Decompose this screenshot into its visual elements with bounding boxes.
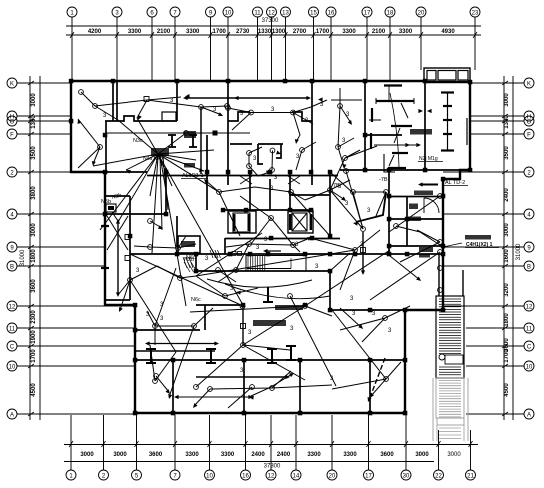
- corridor wire run: [247, 242, 252, 247]
- wire upleft arrow: [78, 119, 82, 124]
- mid-right riser: [361, 227, 366, 232]
- outer wall top right segment: [425, 81, 470, 83]
- door hinge boxes: [232, 252, 236, 256]
- outer wall right mid: [443, 170, 471, 311]
- svg-text:10: 10: [526, 365, 533, 371]
- svg-text:3: 3: [253, 156, 257, 162]
- svg-text:12: 12: [268, 474, 275, 480]
- svg-text:12: 12: [9, 305, 16, 311]
- svg-text:1900: 1900: [31, 330, 37, 344]
- wall H y238 corridor top: [225, 238, 312, 240]
- bottom axis tick slashes: [69, 441, 73, 447]
- right stair corridor walls: [438, 254, 440, 296]
- svg-text:B: B: [527, 265, 531, 271]
- distribution board label: [465, 235, 491, 240]
- svg-text:17: 17: [365, 474, 372, 480]
- svg-text:1300: 1300: [31, 115, 37, 129]
- svg-text:G: G: [527, 120, 532, 126]
- svg-text:K: K: [10, 82, 14, 88]
- svg-text:3200: 3200: [504, 283, 510, 297]
- wire drop TL: [137, 100, 147, 118]
- hub blob right: [184, 163, 195, 168]
- wall segment y351: [135, 350, 215, 352]
- svg-text:3: 3: [213, 107, 217, 113]
- right stair grey section: [433, 378, 468, 441]
- wall V x290: [289, 172, 291, 210]
- svg-text:A: A: [527, 413, 531, 419]
- wire ceiling run: [228, 107, 311, 113]
- wall H y144 center rooms: [230, 143, 252, 145]
- top axis dimension band: [66, 25, 481, 27]
- svg-text:3: 3: [160, 316, 164, 322]
- elevator shaft left: [228, 211, 256, 233]
- svg-text:3: 3: [345, 201, 349, 207]
- long curved wire arc1: [207, 279, 312, 287]
- svg-text:3: 3: [136, 268, 140, 274]
- svg-text:10: 10: [225, 11, 232, 17]
- balcony parapet row top-right: [424, 68, 470, 82]
- corridor double-arrow wire top: [185, 97, 309, 99]
- svg-text:1700: 1700: [316, 29, 330, 35]
- svg-text:2100: 2100: [372, 29, 386, 35]
- right axis dimension band: [503, 76, 505, 420]
- wall H y219 right: [389, 218, 443, 220]
- low bars: [392, 152, 408, 154]
- svg-text:22: 22: [435, 474, 442, 480]
- svg-text:2400: 2400: [504, 188, 510, 202]
- bottom room partition x244: [243, 362, 245, 413]
- svg-text:B: B: [10, 265, 14, 271]
- outer wall left step2: [104, 304, 136, 306]
- wall H y254 corridor bottom: [130, 253, 443, 255]
- small room lamps: [247, 151, 252, 156]
- svg-text:3600: 3600: [31, 279, 37, 293]
- svg-text:1300: 1300: [504, 115, 510, 129]
- right stair rungs upper: [439, 298, 461, 300]
- svg-text:6: 6: [150, 11, 154, 17]
- bottom long wires: [208, 387, 213, 392]
- outer wall left step1: [70, 171, 106, 173]
- svg-text:3300: 3300: [186, 29, 200, 35]
- left axis tick slashes: [28, 81, 34, 85]
- wall H y360 bottom rooms: [135, 359, 405, 361]
- bottom axis bubbles: [66, 470, 76, 480]
- wall H y271 stair bottom: [196, 270, 330, 272]
- bottom center room blob: [253, 320, 286, 326]
- svg-text:C4H1(X2) 1: C4H1(X2) 1: [466, 242, 493, 248]
- bottom room partition x300: [299, 362, 301, 413]
- left axis dimension band: [29, 76, 31, 420]
- svg-text:10: 10: [206, 474, 213, 480]
- wall V x130 mid: [129, 196, 131, 300]
- wall V x425 upper: [424, 82, 426, 170]
- long wire from wall: [370, 252, 440, 300]
- wall V x281 center: [276, 144, 281, 158]
- svg-text:2100: 2100: [157, 29, 171, 35]
- wall H y210 shafts top: [223, 209, 311, 211]
- svg-text:3: 3: [205, 256, 209, 262]
- wire chain continues right: [199, 105, 204, 110]
- svg-text:17: 17: [364, 11, 371, 17]
- wire to switch TL: [95, 106, 118, 120]
- wall V x228 top: [227, 81, 229, 185]
- wall H y214 left rooms: [105, 213, 166, 215]
- svg-text:4: 4: [10, 213, 14, 219]
- svg-text:3500: 3500: [504, 146, 510, 160]
- left axis bubbles: [7, 78, 17, 88]
- wall H y196 left niche: [105, 195, 130, 197]
- equipment blob y132: [184, 131, 196, 138]
- wall H y310 right lower: [330, 309, 405, 311]
- wall V x205 lower stub: [204, 305, 206, 330]
- svg-text:-7B: -7B: [379, 177, 388, 183]
- butterfly door mark: [418, 109, 423, 113]
- svg-text:9: 9: [10, 246, 14, 252]
- svg-text:3: 3: [290, 326, 294, 332]
- svg-text:9: 9: [527, 246, 531, 252]
- svg-text:4: 4: [527, 213, 531, 219]
- svg-text:3: 3: [320, 102, 324, 108]
- svg-text:1700: 1700: [213, 29, 227, 35]
- svg-text:3: 3: [388, 328, 392, 334]
- svg-text:20: 20: [418, 11, 425, 17]
- wire left drop: [232, 113, 251, 131]
- balcony niche center-right: [292, 112, 312, 121]
- svg-text:14: 14: [293, 474, 300, 480]
- mid bars: [391, 125, 412, 127]
- column y132: [213, 131, 218, 136]
- bottom label blob 2: [275, 305, 303, 310]
- svg-text:3300: 3300: [128, 29, 142, 35]
- wire down TL: [93, 147, 100, 164]
- outer wall lower-right step: [404, 309, 444, 311]
- top right room furniture: [384, 84, 402, 86]
- wall V x407 right small: [406, 197, 408, 247]
- wall y100 stub left of x362: [331, 99, 362, 101]
- hub vertical bundle: [160, 156, 162, 230]
- svg-text:3: 3: [367, 208, 371, 214]
- svg-text:21: 21: [467, 474, 474, 480]
- wall V x250 small rooms: [249, 172, 251, 210]
- svg-text:3: 3: [103, 113, 107, 119]
- wall H y246 right: [389, 245, 443, 247]
- svg-text:2730: 2730: [236, 29, 250, 35]
- svg-text:3000: 3000: [447, 452, 461, 458]
- wall V x389 right rooms: [388, 170, 390, 254]
- bottom-right wires: [340, 308, 362, 328]
- outer wall bottom: [134, 412, 406, 414]
- wire diag midtop: [293, 113, 313, 125]
- wires corridor right: [330, 253, 350, 271]
- top axis grid lines: [71, 17, 73, 81]
- svg-text:3300: 3300: [343, 452, 357, 458]
- svg-text:3000: 3000: [80, 452, 94, 458]
- svg-text:4500: 4500: [504, 383, 510, 397]
- room blob front: [408, 217, 421, 222]
- svg-text:1800: 1800: [504, 313, 510, 327]
- riser double-arrow left: [117, 221, 119, 295]
- mid-right room wires: [351, 190, 356, 195]
- closet room mid-left: [178, 236, 200, 253]
- right stair landing: [445, 355, 463, 364]
- svg-text:1330: 1330: [258, 29, 272, 35]
- svg-text:3: 3: [315, 264, 319, 270]
- I-column b: [189, 135, 197, 147]
- wall H y121 topleft with niche: [105, 116, 177, 121]
- svg-text:2700: 2700: [293, 29, 307, 35]
- svg-text:12: 12: [526, 305, 533, 311]
- lamp bc2: [303, 304, 308, 309]
- svg-text:3: 3: [270, 186, 274, 192]
- svg-text:1600: 1600: [504, 249, 510, 263]
- right axis tick slashes: [502, 81, 508, 85]
- I-column below stair: [263, 287, 273, 302]
- svg-text:3000: 3000: [31, 223, 37, 237]
- outer wall left mid: [104, 171, 106, 306]
- I-column a: [168, 135, 176, 147]
- wall V x106 inner: [105, 121, 107, 172]
- outer wall right upper: [469, 81, 471, 171]
- wall H y330 left room: [135, 329, 200, 331]
- dense label block: [419, 247, 433, 252]
- long diagonal wires: [158, 154, 243, 305]
- right axis bubbles: [524, 78, 534, 88]
- corridor X wires left: [216, 268, 221, 273]
- I-columns bottom: [146, 349, 156, 363]
- lamp node TL2: [98, 145, 103, 150]
- svg-text:12: 12: [268, 11, 275, 17]
- central staircase: [246, 256, 306, 272]
- wall H y133 left: [105, 132, 250, 134]
- wall V x330 lower: [329, 271, 331, 310]
- left axis grid lines: [17, 82, 71, 84]
- closet wall piece: [371, 108, 373, 122]
- svg-text:18: 18: [387, 11, 394, 17]
- svg-text:30: 30: [403, 474, 410, 480]
- wall H y196 right: [389, 196, 443, 198]
- top-left room extra: [79, 90, 84, 95]
- svg-text:31000: 31000: [20, 249, 26, 266]
- svg-text:7: 7: [173, 474, 177, 480]
- svg-text:13: 13: [282, 11, 289, 17]
- wire to right: [311, 100, 327, 107]
- svg-text:20: 20: [329, 474, 336, 480]
- room label blob right: [410, 129, 432, 135]
- svg-text:2400: 2400: [277, 452, 291, 458]
- svg-text:3000: 3000: [415, 452, 429, 458]
- svg-text:G: G: [10, 120, 15, 126]
- svg-text:F: F: [527, 133, 531, 139]
- leader line: [443, 243, 462, 247]
- wire chain top-left: [93, 104, 98, 109]
- door hatch small center: [183, 257, 187, 268]
- svg-text:11: 11: [9, 327, 16, 333]
- heavy riser x201: [200, 107, 202, 174]
- svg-text:2: 2: [102, 474, 106, 480]
- svg-text:9: 9: [209, 11, 213, 17]
- door X mark 1: [240, 176, 252, 184]
- bottom room wire stubs: [154, 374, 159, 379]
- svg-text:3800: 3800: [31, 186, 37, 200]
- lamp right small room: [300, 148, 305, 153]
- wall H y135 right room: [365, 134, 402, 136]
- svg-text:31000: 31000: [516, 243, 522, 260]
- door hatch mid-left: [184, 262, 190, 272]
- svg-text:1: 1: [69, 474, 73, 480]
- top axis bubbles: [67, 7, 77, 17]
- room blob N1: [409, 204, 418, 210]
- svg-text:3: 3: [346, 112, 350, 118]
- svg-text:5: 5: [135, 474, 139, 480]
- svg-text:3300: 3300: [185, 452, 199, 458]
- wall V x207: [206, 135, 208, 210]
- wire hub radiating: [93, 154, 158, 166]
- wall H y195 small rooms: [289, 194, 330, 196]
- right axis grid lines: [470, 82, 524, 84]
- svg-text:1: 1: [70, 11, 74, 17]
- svg-text:2: 2: [527, 171, 531, 177]
- wall V x196 stub: [195, 254, 197, 271]
- bottom axis grid lines: [70, 415, 72, 470]
- svg-text:2: 2: [10, 171, 14, 177]
- wall V x258 center: [258, 144, 263, 164]
- wall H y238 corridor top right: [312, 238, 340, 240]
- right stair rungs mid: [439, 366, 461, 368]
- double-arrow wire bottom2: [176, 396, 251, 398]
- bottom run wire: [228, 387, 252, 408]
- corridor door hatch 2: [210, 250, 213, 258]
- mid-left block extras: [101, 225, 109, 227]
- wall H y305 center stub: [196, 304, 240, 306]
- structural columns: [69, 79, 74, 84]
- handrail right wing: [447, 92, 449, 151]
- wall V x166 mid: [165, 168, 167, 215]
- wall V x113 top double: [112, 81, 114, 121]
- svg-text:N6c: N6c: [191, 297, 201, 303]
- wall V x330 mid: [329, 172, 331, 236]
- wire down middle: [293, 113, 300, 143]
- svg-text:3300: 3300: [221, 452, 235, 458]
- wall V x312 top: [311, 81, 313, 185]
- wall H y300 left closet: [106, 299, 130, 301]
- room 330-365 wires: [338, 104, 343, 109]
- svg-text:16: 16: [328, 11, 335, 17]
- svg-text:3: 3: [115, 11, 119, 17]
- svg-text:3: 3: [256, 245, 260, 251]
- center room lamp pair: [270, 148, 275, 153]
- svg-text:F: F: [10, 133, 14, 139]
- svg-text:1700: 1700: [31, 349, 37, 363]
- svg-text:3: 3: [350, 296, 354, 302]
- svg-text:N2j M1g: N2j M1g: [419, 156, 438, 162]
- right stair strip: [436, 296, 464, 378]
- svg-text:3: 3: [372, 311, 376, 317]
- svg-text:1700: 1700: [504, 349, 510, 363]
- dashed feeder: [369, 358, 385, 400]
- outer wall right lower: [404, 309, 406, 414]
- svg-text:10: 10: [9, 365, 16, 371]
- bottom center riser: [242, 306, 244, 345]
- svg-text:7: 7: [173, 11, 177, 17]
- svg-text:1300: 1300: [272, 29, 286, 35]
- outer wall left lower: [134, 304, 136, 414]
- closet box: [162, 112, 176, 121]
- wire y145 with arrows: [374, 144, 417, 146]
- wire right lower: [390, 256, 420, 280]
- svg-text:23: 23: [472, 11, 479, 17]
- switch box N5b: [106, 204, 116, 212]
- svg-text:3000: 3000: [31, 93, 37, 107]
- corridor stub wall x225: [224, 238, 226, 254]
- node br: [384, 377, 389, 382]
- svg-text:3600: 3600: [380, 452, 394, 458]
- double arrow bottom: [196, 376, 288, 378]
- svg-text:2300: 2300: [31, 310, 37, 324]
- thick arrow line right: [421, 184, 438, 186]
- wall H y172 inner: [106, 171, 147, 173]
- double-arrow wire left room: [147, 343, 217, 345]
- svg-text:37300: 37300: [262, 18, 279, 24]
- wall V x177 top: [176, 81, 178, 121]
- svg-text:K: K: [527, 82, 531, 88]
- svg-text:3000: 3000: [504, 223, 510, 237]
- elevator shaft right with X: [288, 211, 313, 233]
- wall nodes right corridor: [394, 224, 399, 229]
- wire ceiling mid: [217, 190, 222, 195]
- svg-text:3000: 3000: [113, 452, 127, 458]
- svg-text:3300: 3300: [342, 29, 356, 35]
- svg-text:4930: 4930: [441, 29, 455, 35]
- wall H y170 right wing: [340, 169, 470, 171]
- svg-text:4200: 4200: [88, 29, 102, 35]
- svg-text:A: A: [10, 413, 14, 419]
- bottom-left wires: [153, 324, 158, 329]
- svg-text:N2b: N2b: [111, 193, 122, 201]
- bottom room partition x173: [172, 362, 174, 413]
- furniture diagonal curve: [390, 93, 399, 167]
- wall V x270 small rooms: [269, 179, 271, 210]
- svg-text:16: 16: [242, 474, 249, 480]
- svg-text:3: 3: [248, 330, 252, 336]
- outer wall top: [71, 80, 425, 82]
- wall V x177 mid: [176, 216, 178, 247]
- svg-text:37300: 37300: [264, 464, 281, 470]
- svg-text:1800: 1800: [31, 249, 37, 263]
- svg-text:3: 3: [338, 184, 342, 190]
- bottom axis dimension band: [64, 444, 478, 446]
- svg-text:3600: 3600: [149, 452, 163, 458]
- door arc right rooms: [424, 198, 439, 213]
- long curved wire arc2: [225, 284, 330, 299]
- outer wall left upper: [70, 80, 72, 173]
- door X mark 2: [288, 176, 300, 184]
- svg-text:3500: 3500: [31, 146, 37, 160]
- svg-text:11: 11: [526, 327, 533, 333]
- corridor node center: [269, 216, 274, 221]
- svg-text:3300: 3300: [399, 29, 413, 35]
- svg-text:AL TD-2: AL TD-2: [445, 180, 465, 186]
- svg-text:N6c: N6c: [186, 255, 196, 261]
- svg-text:C: C: [527, 345, 532, 351]
- blob fire elevator: [414, 191, 433, 196]
- distribution box blob: [151, 148, 169, 156]
- top axis tick slashes: [70, 32, 74, 38]
- bottom room partition x370: [369, 362, 371, 413]
- svg-text:3: 3: [352, 311, 356, 317]
- svg-text:2400: 2400: [251, 452, 265, 458]
- svg-text:15: 15: [310, 11, 317, 17]
- wall H y175 center: [147, 175, 338, 177]
